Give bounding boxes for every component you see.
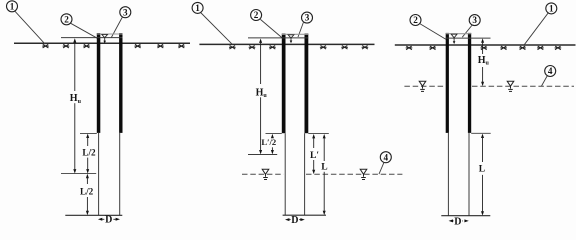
pile shaft right line below casing (C) — [468, 133, 470, 216]
ground hatch mark C1 — [406, 46, 413, 50]
ground hatch mark C5 — [519, 46, 526, 50]
callout circle 2 (A) — [61, 14, 72, 25]
ground hatch mark B1 — [229, 46, 236, 50]
svg-text:L: L — [321, 162, 327, 173]
dimension line L (C) — [481, 134, 484, 216]
dimension D arrows (A) — [98, 218, 120, 221]
svg-text:1: 1 — [549, 4, 554, 14]
svg-text:D: D — [454, 216, 461, 227]
ground hatch mark C2 — [429, 46, 436, 50]
callout circle 4 (C) — [545, 66, 556, 77]
ground hatch mark B6 — [362, 46, 369, 50]
casing right wall (A) — [119, 33, 122, 133]
casing right wall (B) — [305, 34, 309, 134]
water table dashed line left segment (C) — [404, 85, 444, 87]
casing bottom tick line left (B) — [266, 133, 282, 135]
pile bottom line (B) — [283, 214, 326, 216]
ground hatch mark A5 — [157, 44, 164, 48]
casing left wall (C) — [446, 33, 449, 133]
svg-text:1: 1 — [10, 1, 15, 11]
inner fill level symbol (C) — [451, 34, 457, 44]
pile shaft right line below casing (A) — [119, 133, 121, 215]
leader line from circle 2 to casing wall (A) — [71, 23, 98, 38]
ground hatch mark A3 — [83, 44, 90, 48]
leader line from circle 3 to pile cap (C) — [462, 25, 472, 37]
leader line from circle 1 to ground (A) — [15, 11, 45, 44]
casing right wall (C) — [468, 33, 471, 133]
svg-text:2: 2 — [413, 15, 418, 25]
leader line from circle 4 to water line (C) — [542, 76, 548, 86]
water table dashed line right segment (B) — [306, 173, 402, 175]
ground hatch mark C3 — [481, 46, 488, 50]
svg-text:2: 2 — [254, 10, 259, 20]
callout circle 3 (A) — [120, 7, 131, 18]
dimension line L (B) — [323, 134, 326, 215]
svg-text:4: 4 — [384, 152, 389, 162]
mid-depth tick line (A) — [61, 173, 96, 175]
svg-text:D: D — [105, 215, 112, 226]
ground hatch mark A1 — [42, 44, 49, 48]
leader line from circle 4 to water line (B) — [379, 162, 384, 174]
ground hatch mark C6 — [537, 46, 544, 50]
svg-text:2: 2 — [64, 14, 69, 24]
ground hatch mark A4 — [134, 44, 141, 48]
ground hatch mark B4 — [320, 46, 327, 50]
casing top edge line (C) — [446, 33, 472, 35]
dimension line H_u (A) — [73, 38, 76, 173]
water table symbol C2 — [507, 81, 514, 91]
ground surface line (diagram A) — [14, 42, 190, 44]
pile shaft left line below casing (C) — [447, 133, 449, 216]
ground surface line (diagram B) — [199, 43, 374, 45]
svg-text:L′/2: L′/2 — [261, 137, 276, 147]
svg-text:D: D — [291, 215, 298, 226]
casing left wall (B) — [282, 34, 286, 134]
svg-text:4: 4 — [548, 66, 553, 76]
callout circle 4 (B) — [380, 152, 391, 163]
callout circle 2 (B) — [251, 10, 262, 21]
dimension line L'/2 (B) — [271, 134, 274, 155]
ground hatch mark B3 — [269, 46, 276, 50]
dimension D arrows (C) — [449, 219, 469, 222]
pile cap line (A) — [61, 37, 123, 39]
ground surface line (diagram C) — [395, 44, 576, 46]
leader line from circle 3 to pile cap (A) — [111, 17, 122, 37]
ground hatch mark B2 — [249, 46, 256, 50]
ground hatch mark A6 — [178, 44, 185, 48]
casing top edge line (A) — [97, 33, 123, 35]
ground hatch mark C4 — [500, 46, 507, 50]
dimension line L/2 upper (A) — [86, 134, 89, 174]
casing bottom tick line (C) — [471, 132, 491, 134]
callout circle 1 (A) — [7, 1, 18, 12]
casing bottom tick line (A) — [80, 132, 97, 134]
pile shaft left line below casing (A) — [98, 133, 100, 215]
water table symbol C1 — [419, 81, 426, 91]
dimension line L' (B) — [312, 134, 315, 174]
pile bottom line (A) — [65, 214, 122, 216]
callout circle 1 (B) — [192, 2, 203, 13]
callout circle 3 (B) — [302, 12, 313, 23]
pile cap line (C) — [446, 37, 491, 39]
leader line from circle 1 to ground (C) — [524, 13, 548, 45]
svg-text:L: L — [479, 164, 485, 175]
svg-text:Hu: Hu — [478, 55, 490, 67]
casing left wall (A) — [97, 33, 101, 133]
leader line from circle 1 to ground (B) — [201, 13, 233, 45]
svg-text:3: 3 — [305, 13, 310, 23]
svg-text:L′: L′ — [310, 150, 319, 161]
callout circle 3 (C) — [469, 15, 480, 26]
ground hatch mark A2 — [63, 44, 70, 48]
inner fill level symbol (B) — [288, 35, 294, 44]
callout circle 1 (C) — [546, 3, 557, 14]
pile cap line (B) — [248, 37, 308, 39]
pile shaft left line below casing (B) — [284, 133, 286, 215]
mid-depth tick line (B) — [248, 154, 277, 156]
svg-text:3: 3 — [123, 7, 128, 17]
water table dashed line right segment (C) — [472, 85, 574, 87]
dimension D arrows (B) — [285, 218, 305, 221]
svg-text:Hu: Hu — [70, 93, 82, 105]
svg-text:Hu: Hu — [256, 87, 268, 99]
callout circle 2 (C) — [410, 15, 421, 26]
pile bottom line (C) — [441, 215, 490, 217]
water table symbol B1 — [262, 169, 269, 179]
leader line from circle 2 to casing wall (B) — [260, 19, 282, 37]
dimension line H_u (C) — [481, 38, 484, 86]
inner fill level symbol (A) — [102, 34, 108, 43]
ground hatch mark C7 — [555, 46, 562, 50]
casing bottom tick line right (B) — [308, 133, 329, 135]
casing top edge line (B) — [282, 33, 309, 35]
water table dashed line left segment (B) — [242, 173, 284, 175]
svg-text:3: 3 — [472, 15, 477, 25]
svg-text:L/2: L/2 — [80, 186, 94, 196]
svg-text:1: 1 — [195, 3, 200, 13]
leader line from circle 2 to casing wall (C) — [420, 24, 446, 40]
dimension line L/2 lower (A) — [86, 174, 89, 215]
water table symbol B2 — [360, 169, 367, 179]
leader line from circle 3 to pile cap (B) — [298, 22, 303, 37]
dimension line H_u (B) — [259, 39, 262, 155]
ground hatch mark B5 — [341, 46, 348, 50]
svg-text:L/2: L/2 — [82, 147, 96, 157]
pile shaft right line below casing (B) — [304, 133, 306, 215]
